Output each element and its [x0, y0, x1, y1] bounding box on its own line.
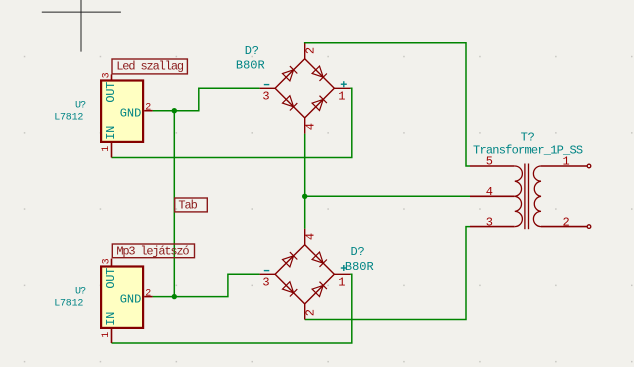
svg-text:4: 4 — [486, 185, 493, 199]
svg-text:L7812: L7812 — [54, 299, 83, 310]
svg-text:Tab: Tab — [178, 199, 197, 213]
svg-text:Led szallag: Led szallag — [116, 59, 184, 73]
svg-text:U?: U? — [75, 287, 86, 298]
svg-text:D?: D? — [245, 44, 259, 58]
svg-text:D?: D? — [350, 245, 364, 259]
svg-text:Mp3 lejátszó: Mp3 lejátszó — [116, 245, 189, 259]
svg-text:2: 2 — [145, 289, 151, 300]
svg-text:2: 2 — [303, 47, 317, 54]
svg-text:Transformer_1P_SS: Transformer_1P_SS — [473, 143, 583, 157]
svg-text:1: 1 — [338, 275, 345, 289]
svg-text:U?: U? — [75, 101, 86, 112]
svg-text:3: 3 — [101, 72, 112, 78]
svg-text:2: 2 — [145, 103, 151, 114]
svg-text:3: 3 — [101, 258, 112, 264]
svg-text:B80R: B80R — [236, 59, 265, 73]
svg-text:IN: IN — [104, 126, 118, 140]
svg-text:1: 1 — [101, 332, 112, 338]
svg-text:GND: GND — [120, 292, 142, 306]
svg-text:4: 4 — [303, 123, 317, 130]
svg-text:1: 1 — [338, 89, 345, 103]
svg-text:OUT: OUT — [104, 268, 118, 289]
svg-text:B80R: B80R — [345, 260, 374, 274]
svg-text:4: 4 — [303, 233, 317, 240]
svg-text:OUT: OUT — [104, 82, 118, 103]
svg-text:2: 2 — [303, 309, 317, 316]
svg-text:3: 3 — [486, 215, 493, 229]
svg-text:L7812: L7812 — [54, 113, 83, 124]
svg-text:IN: IN — [104, 312, 118, 326]
svg-text:GND: GND — [120, 106, 142, 120]
svg-text:3: 3 — [262, 275, 269, 289]
svg-text:1: 1 — [101, 146, 112, 152]
svg-text:2: 2 — [562, 215, 569, 229]
svg-text:3: 3 — [262, 89, 269, 103]
